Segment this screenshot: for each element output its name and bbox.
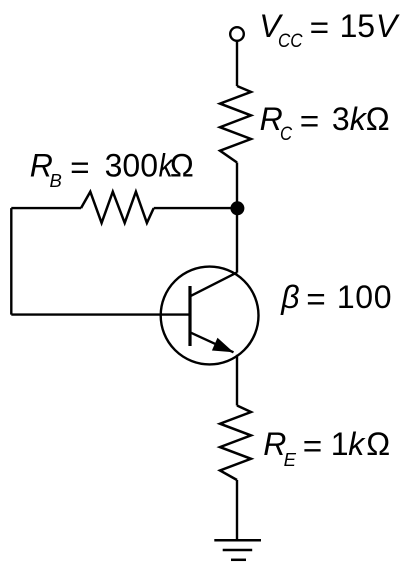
wire emitter to RE	[236, 355, 238, 406]
ground	[214, 539, 261, 542]
wire left feedback vertical	[10, 208, 12, 315]
transistor Q1 emitter arrowhead	[212, 338, 234, 353]
wire RB left lead	[11, 207, 81, 209]
wire VCC terminal to RC	[236, 41, 238, 86]
wire node to collector	[236, 208, 238, 273]
transistor Q1 base bar	[188, 286, 191, 346]
wire base	[11, 313, 190, 315]
wire RE to ground	[236, 480, 238, 540]
transistor Q1 collector line	[190, 272, 237, 296]
wire RC to node	[236, 163, 238, 209]
node (junction dot)	[230, 201, 244, 215]
resistor RE	[220, 406, 251, 481]
resistor RC	[220, 86, 251, 163]
transistor Q1 emitter line	[190, 332, 234, 352]
terminal VCC (open circle)	[230, 27, 244, 41]
transistor Q1 circle	[161, 267, 259, 365]
wire RB right lead to node	[154, 207, 237, 209]
resistor RB	[81, 192, 154, 223]
